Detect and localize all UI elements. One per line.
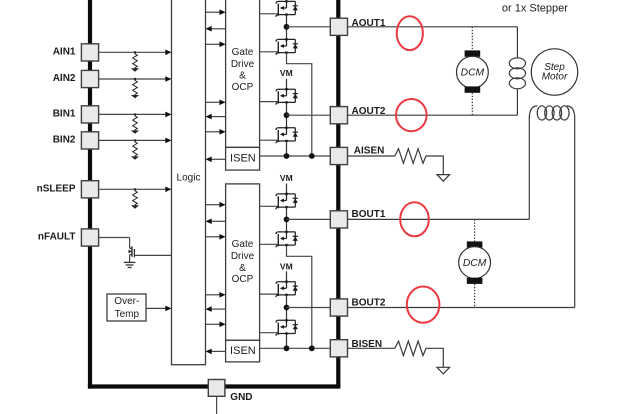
wire bottom boundary rail [88, 384, 341, 388]
svg-text:Gate: Gate [232, 239, 254, 250]
transistor M2 (A low-side 1) [276, 38, 298, 55]
node highlight ellipse AOUT2 [396, 99, 427, 131]
wire BIN2 to Logic [99, 138, 172, 144]
svg-text:OCP: OCP [232, 82, 254, 93]
motor Step Motor [531, 49, 577, 95]
svg-text:nSLEEP: nSLEEP [37, 184, 76, 195]
svg-text:BOUT1: BOUT1 [352, 209, 386, 220]
wire M6 source detour to ISEN B rail [287, 245, 312, 348]
wire arrow logic->gatedriveB 4 [206, 322, 226, 328]
wire M8 source to ISEN B rail [286, 334, 288, 349]
wire AIN1 to Logic [99, 50, 172, 56]
transistor Q1 (open-drain nFAULT) [129, 246, 135, 262]
svg-text:or 1x Stepper: or 1x Stepper [502, 2, 568, 14]
motor DCM (channel A) [457, 27, 489, 115]
svg-text:VM: VM [280, 261, 293, 271]
node BOUT1 junction [284, 217, 290, 223]
svg-text:Gate: Gate [232, 47, 254, 58]
wire ISEN B rail [260, 347, 331, 349]
transistor M6 (B low-side 1) [276, 231, 298, 248]
pin AISEN [330, 146, 384, 165]
wire arrow logic->gatedriveB 2 [206, 234, 226, 240]
wire arrow gatedriveA->logic 2 [206, 114, 226, 120]
svg-text:AIN2: AIN2 [53, 73, 76, 84]
node highlight ellipse AOUT1 [397, 16, 423, 50]
transistor M8 (B low-side 2) [276, 319, 298, 336]
wire M1 drain stub [286, 0, 288, 1]
resistor AISEN sense [395, 149, 444, 175]
wire arrow logic->gatedriveB 1 [206, 202, 226, 208]
wire gate M1 [260, 13, 278, 15]
wire arrow logic->gatedriveA 1 [206, 9, 226, 15]
pin AIN2 [53, 70, 99, 87]
wire gate M7 [260, 293, 278, 295]
svg-text:AIN1: AIN1 [53, 47, 76, 58]
svg-text:BOUT2: BOUT2 [352, 298, 386, 309]
node AOUT1 junction [284, 24, 290, 30]
node ISEN B rail junction 2 [309, 345, 315, 351]
svg-text:Over-: Over- [114, 296, 139, 307]
transistor M5 (B high-side 1) [276, 193, 298, 210]
node AOUT2 junction [284, 112, 290, 118]
node ISEN A rail junction 2 [309, 153, 315, 159]
resistor pulldown AIN2 [131, 78, 139, 99]
pin AIN1 [53, 44, 99, 61]
wire nSLEEP to Logic [99, 187, 172, 193]
wire gate M3 [260, 101, 278, 103]
wire BOUT2 to stepper winding B [348, 307, 575, 309]
wire AOUT1 node to pin [287, 26, 331, 28]
svg-text:Logic: Logic [177, 173, 201, 184]
wire arrow ISENB->logic [206, 349, 226, 355]
wire left boundary rail [88, 0, 92, 389]
wire AISEN to resistor [348, 155, 395, 157]
wire GND down [216, 396, 218, 414]
svg-text:ISEN: ISEN [230, 345, 256, 357]
wire M5 source to M6 drain [286, 207, 288, 232]
svg-text:Motor: Motor [542, 72, 568, 83]
block Gate Drive & OCP (channel A) [226, 0, 260, 147]
wire AOUT2 to stepper winding A [348, 114, 518, 116]
svg-text:nFAULT: nFAULT [38, 232, 76, 243]
wire VM stub to M3 [286, 79, 288, 89]
wire arrow gatedriveB->logic 2 [206, 306, 226, 312]
inductor stepper winding B [529, 106, 574, 308]
pin AOUT2 [330, 106, 386, 124]
svg-text:OCP: OCP [232, 274, 254, 285]
pin BIN2 [53, 132, 99, 149]
wire arrow Over-Temp to Logic [146, 306, 172, 312]
wire arrow gatedriveB->logic 1 [206, 219, 226, 225]
wire M3 source to M4 drain [286, 102, 288, 127]
wire AIN2 to Logic [99, 76, 172, 82]
svg-text:GND: GND [230, 392, 252, 403]
wire BISEN to resistor [348, 347, 395, 349]
wire transistor gate to Logic [134, 254, 171, 256]
wire gate M2 [260, 51, 278, 53]
pin BISEN [330, 339, 382, 357]
resistor pulldown AIN1 [131, 51, 139, 72]
wire gate M8 [260, 332, 278, 334]
block ISEN (channel B) [226, 340, 260, 362]
node BOUT2 junction [284, 305, 290, 311]
motor DCM (channel B) [459, 219, 491, 307]
transistor M4 (A low-side 2) [276, 126, 298, 143]
wire M4 source to ISEN rail [286, 141, 288, 156]
block Over-Temp [107, 294, 146, 321]
wire arrow gatedriveA->logic 1 [206, 26, 226, 32]
wire BIN1 to Logic [99, 112, 172, 118]
resistor BISEN sense [395, 341, 444, 367]
ground BISEN [437, 367, 450, 374]
wire gate M6 [260, 243, 278, 245]
node highlight ellipse BOUT2 [407, 287, 440, 323]
svg-text:BIN1: BIN1 [53, 109, 76, 120]
pin nSLEEP [37, 181, 99, 198]
wire ISEN A rail [260, 155, 331, 157]
wire BOUT1 to stepper winding B [348, 218, 530, 220]
svg-text:&: & [239, 70, 246, 81]
node highlight ellipse BOUT1 [400, 202, 429, 236]
pin AOUT1 [330, 18, 386, 35]
svg-text:VM: VM [280, 173, 293, 183]
ground AISEN [437, 175, 450, 182]
svg-text:DCM: DCM [463, 258, 487, 269]
svg-text:BIN2: BIN2 [53, 135, 76, 146]
block Logic [172, 0, 206, 365]
svg-text:Drive: Drive [231, 59, 255, 70]
node ISEN A rail junction 1 [284, 153, 290, 159]
wire VM stub to M5 [286, 184, 288, 194]
svg-text:&: & [239, 263, 246, 274]
wire M7 source to M8 drain [286, 295, 288, 320]
resistor pulldown BIN1 [131, 113, 139, 134]
wire M1 source to M2 drain [286, 15, 288, 40]
wire arrow logic->gatedriveA 3 [206, 100, 226, 106]
wire arrow logic->gatedriveA 2 [206, 42, 226, 48]
svg-text:AISEN: AISEN [354, 146, 385, 157]
transistor M1 (A high-side 1, cropped top) [276, 0, 298, 17]
svg-text:Temp: Temp [115, 309, 140, 320]
wire VM stub to M7 [286, 271, 288, 281]
svg-text:DCM: DCM [461, 67, 485, 78]
pin BOUT2 [330, 298, 386, 317]
wire AOUT1 to stepper winding A [348, 26, 518, 28]
block ISEN (channel A) [226, 147, 260, 170]
wire arrow logic->gatedriveB 3 [206, 292, 226, 298]
wire M2 source detour to ISEN rail [287, 53, 312, 156]
wire right boundary rail [336, 0, 340, 387]
resistor pulldown nSLEEP [131, 188, 139, 209]
wire BOUT2 node to pin [287, 307, 331, 309]
wire arrow logic->gatedriveA 4 [206, 129, 226, 135]
wire AOUT2 node to pin [287, 114, 331, 116]
svg-text:ISEN: ISEN [230, 153, 256, 165]
pin BOUT1 [330, 209, 386, 228]
wire gate M4 [260, 139, 278, 141]
transistor M7 (B high-side 2) [276, 280, 298, 297]
resistor pulldown BIN2 [131, 139, 139, 160]
transistor M3 (A high-side 2) [276, 88, 298, 105]
wire BOUT1 node to pin [287, 218, 331, 220]
block Gate Drive & OCP (channel B) [226, 184, 260, 340]
pin GND [208, 380, 252, 404]
pin nFAULT [38, 229, 99, 246]
wire arrow ISENA->logic [206, 157, 226, 163]
node ISEN B rail junction 1 [284, 345, 290, 351]
pin BIN1 [53, 106, 99, 123]
ground (nFAULT transistor source) [124, 262, 136, 267]
wire gate M5 [260, 205, 278, 207]
wire nFAULT to transistor drain [99, 237, 130, 239]
inductor stepper winding A [509, 27, 525, 115]
svg-text:VM: VM [280, 68, 293, 78]
svg-text:Drive: Drive [231, 251, 255, 262]
